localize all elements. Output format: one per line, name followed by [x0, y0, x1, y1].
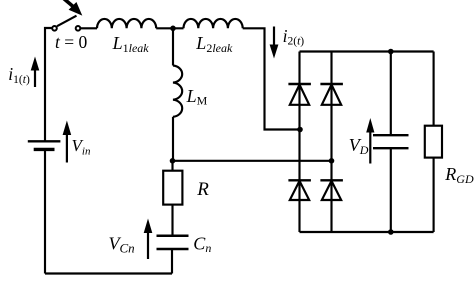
inductor LM [173, 66, 182, 117]
wire L1leak to node [156, 27, 183, 29]
node dot VD bottom [388, 229, 394, 235]
node B dot (LM/R/bridge junction) [170, 158, 176, 164]
capacitor Cn top plate [157, 234, 189, 237]
bridge right leg [330, 52, 332, 233]
voltage arrow VD [366, 118, 374, 164]
resistor R body [163, 171, 182, 205]
diode D2 triangle [322, 85, 341, 105]
diode D3 cathode bar [288, 179, 311, 181]
current arrow i1 [31, 57, 40, 88]
resistor RGD body [425, 126, 442, 158]
wire L2leak to bridge input [243, 28, 300, 129]
svg-text:Vin: Vin [72, 136, 91, 158]
current arrow i2 [270, 27, 279, 59]
switch terminal right [76, 26, 81, 31]
wire RGD top [433, 52, 435, 126]
node A dot (L1/L2/LM junction) [170, 26, 176, 32]
wire bridge bottom rail [300, 231, 434, 233]
capacitor Cn bottom plate [157, 248, 189, 251]
diode D3 triangle [290, 181, 309, 200]
wire node B to resistor R [171, 161, 173, 171]
wire left vertical (battery bottom segment) [44, 150, 46, 274]
wire left vertical (battery top segment) [45, 28, 52, 141]
svg-text:VCn: VCn [109, 234, 135, 256]
wire RGD bottom [433, 158, 435, 232]
capacitor VD bottom plate [373, 147, 409, 149]
wire bottom return [45, 272, 172, 274]
capacitor VD top plate [373, 134, 409, 136]
svg-text:VD: VD [349, 135, 369, 157]
wire VD top [390, 52, 392, 136]
svg-text:L1leak: L1leak [112, 33, 150, 55]
diode D1 triangle [290, 85, 309, 105]
inductor L1leak [97, 19, 156, 28]
inductor L2leak [184, 19, 243, 28]
switch blade [57, 16, 77, 27]
svg-text:RGD: RGD [444, 164, 474, 186]
wire node B to bridge right leg [173, 160, 332, 162]
svg-text:i1(t): i1(t) [8, 64, 30, 86]
svg-text:i2(t): i2(t) [283, 26, 305, 48]
switch closing arrow [60, 0, 83, 16]
svg-text:t = 0: t = 0 [55, 32, 87, 52]
node dot bridge right input [329, 158, 335, 164]
svg-text:Cn: Cn [193, 234, 211, 256]
wire node to LM [172, 28, 174, 65]
bridge left leg [298, 52, 300, 233]
wire VD bottom [390, 148, 392, 232]
wire switch to L1leak [81, 27, 97, 29]
switch terminal left [52, 26, 57, 31]
wire R to Cn [171, 205, 173, 236]
diode D4 triangle [322, 181, 341, 200]
svg-text:LM: LM [186, 86, 208, 108]
diode D4 cathode bar [320, 179, 343, 181]
node dot VD top [388, 49, 394, 55]
battery Vin negative plate [34, 148, 55, 151]
diode D2 cathode bar [320, 83, 343, 85]
battery Vin positive plate [28, 140, 61, 142]
svg-text:R: R [196, 179, 209, 200]
wire bridge top rail [300, 50, 434, 52]
node dot bridge left input [297, 127, 303, 133]
voltage arrow Vin [63, 121, 72, 163]
voltage arrow VCn [144, 219, 153, 260]
wire Cn bottom to return [171, 249, 173, 274]
diode D1 cathode bar [288, 83, 311, 85]
svg-text:L2leak: L2leak [195, 33, 233, 55]
wire LM to node B [172, 117, 174, 161]
